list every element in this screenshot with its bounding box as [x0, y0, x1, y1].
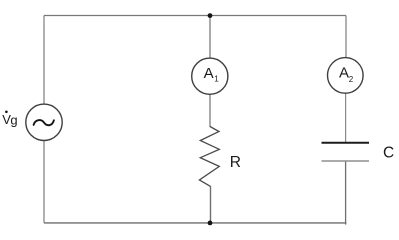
svg-text:R: R: [230, 154, 241, 171]
wire top horizontal: [44, 15, 346, 17]
ammeter A1 circle: [192, 58, 228, 94]
svg-text:2: 2: [349, 75, 354, 84]
resistor R zigzag: [199, 127, 219, 187]
wire middle below resistor: [210, 186, 212, 223]
wire middle between A1 and resistor: [209, 94, 211, 127]
wire bottom horizontal: [44, 222, 346, 224]
label Vg dot (phasor): [5, 111, 8, 114]
wire right below capacitor: [345, 162, 347, 225]
wire left vertical lower: [43, 141, 45, 224]
source Vg circle: [26, 104, 62, 140]
wire middle top stub: [209, 16, 211, 59]
ammeter A2 circle: [328, 58, 364, 94]
svg-text:C: C: [383, 145, 394, 162]
wire left vertical upper: [43, 16, 45, 105]
capacitor C bottom plate: [322, 160, 370, 162]
svg-text:A: A: [339, 65, 349, 82]
capacitor C top plate: [322, 142, 370, 144]
source Vg sine symbol: [34, 120, 54, 125]
wire right between A2 and capacitor: [345, 93, 347, 142]
svg-text:1: 1: [214, 75, 219, 84]
svg-text:g: g: [10, 112, 17, 127]
node junction dot top: [208, 13, 213, 18]
node junction dot bottom: [208, 221, 213, 226]
wire right top stub: [345, 16, 347, 58]
svg-text:A: A: [204, 65, 214, 82]
